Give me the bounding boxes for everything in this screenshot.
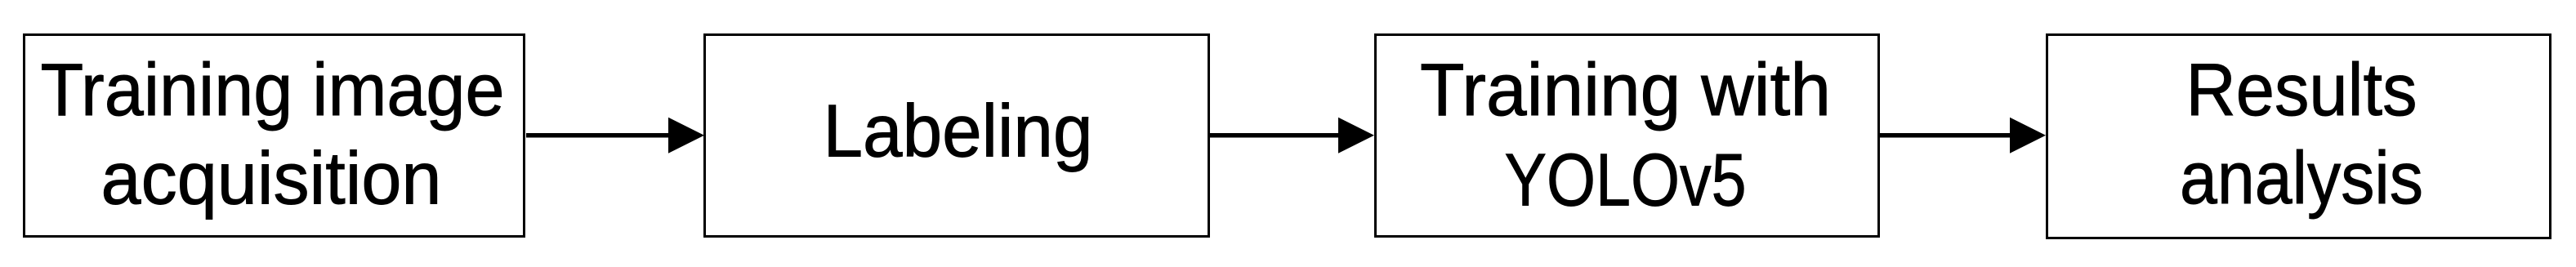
box: Labeling	[705, 35, 1209, 237]
svg-text:Training with: Training with	[1420, 49, 1831, 131]
svg-text:YOLOv5: YOLOv5	[1505, 140, 1747, 222]
svg-text:Training image: Training image	[41, 49, 505, 131]
arrow: box3 to box4	[1880, 118, 2046, 154]
arrow: box2 to box3	[1210, 118, 1374, 154]
box: Results analysis	[2047, 35, 2551, 238]
arrow: box1 to box2	[526, 118, 704, 154]
box: Training image acquisition	[25, 35, 525, 237]
svg-text:Results: Results	[2186, 49, 2418, 131]
svg-text:Labeling: Labeling	[824, 91, 1093, 173]
svg-text:acquisition: acquisition	[101, 138, 442, 220]
box: Training with YOLOv5	[1376, 35, 1879, 237]
svg-text:analysis: analysis	[2180, 137, 2423, 220]
